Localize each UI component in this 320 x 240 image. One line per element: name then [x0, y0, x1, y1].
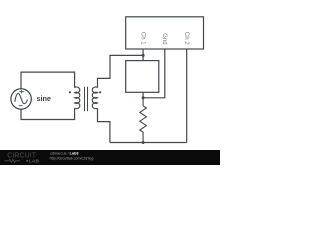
minus sign of V1: [19, 105, 23, 107]
transformer primary phase dot: [69, 91, 71, 93]
watermark bar: [0, 150, 220, 165]
resistor R1: [140, 98, 147, 143]
svg-text:LAB: LAB: [29, 158, 40, 164]
svg-text:Ch 1: Ch 1: [139, 32, 145, 45]
svg-text:cdmarcus / Lab8: cdmarcus / Lab8: [50, 152, 79, 156]
voltage source V1 circle: [11, 89, 31, 109]
box X1 (rectifier block): [126, 61, 159, 93]
transformer secondary phase dot: [99, 91, 101, 93]
transformer core lines: [85, 87, 88, 112]
CircuitLab logo dot: [26, 160, 28, 162]
svg-text:CIRCUIT: CIRCUIT: [7, 152, 36, 159]
node C junction dot (bottom rail): [142, 141, 145, 144]
oscilloscope U1 box: [126, 17, 204, 49]
wire: V1 top to transformer primary top: [21, 72, 75, 89]
wire: box X1 bottom to node B: [142, 92, 144, 98]
wire: scope Ch2 pin down to bottom rail: [186, 49, 188, 143]
CircuitLab logo resistor + LAB: [5, 159, 20, 162]
svg-text:Ch 2: Ch 2: [183, 32, 189, 45]
svg-text:sine: sine: [37, 94, 51, 103]
transformer T1 secondary winding: [92, 87, 97, 109]
plus sign of V1: [19, 90, 24, 94]
wire: bottom rail: [110, 142, 187, 144]
node A junction dot: [142, 54, 145, 57]
sine waveform inside V1: [15, 93, 28, 103]
wire: scope Gnd pin down to node B: [143, 49, 165, 98]
node B junction dot: [142, 96, 145, 99]
wire: secondary bottom to bottom rail: [98, 108, 110, 142]
wire: secondary top to node A: [98, 55, 144, 87]
transformer T1 primary winding: [75, 87, 80, 109]
wire: scope Ch1 pin down through node A to box X1 top: [142, 49, 144, 61]
svg-text:Gnd: Gnd: [161, 33, 167, 44]
svg-text:http://circuitlab.com/c287pg: http://circuitlab.com/c287pg: [50, 157, 94, 161]
wire: transformer primary bottom to V1 bottom: [21, 108, 75, 119]
